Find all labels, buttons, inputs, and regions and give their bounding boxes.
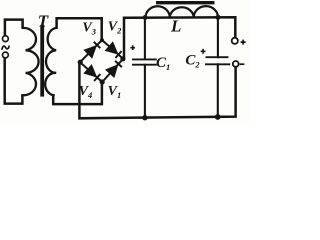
- svg-text:L: L: [170, 17, 181, 36]
- inductor L coil: [145, 6, 218, 17]
- output terminal + (top): [232, 38, 238, 44]
- node: bridge top junction dot: [100, 38, 104, 42]
- wire: bridge right node (DC+) up to top rail, rail to top terminal: [124, 17, 235, 59]
- node: bridge bottom junction dot: [100, 79, 105, 84]
- transformer T secondary winding: [45, 28, 56, 95]
- node: bridge right junction dot: [120, 56, 125, 61]
- plus sign near C2: [201, 49, 206, 54]
- svg-text:C2: C2: [185, 53, 200, 70]
- svg-text:C1: C1: [156, 55, 170, 72]
- plus sign near C1: [130, 45, 135, 50]
- svg-text:V3: V3: [82, 20, 96, 36]
- diode V2 (top node to right node): [106, 43, 121, 58]
- wire: AC source top lead to primary top: [5, 20, 23, 36]
- transformer T primary winding: [23, 28, 39, 95]
- node: bottom rail / C1 junction dot: [142, 115, 147, 120]
- wire: secondary top to bridge top node: [57, 18, 102, 39]
- wire: AC source bottom lead to primary bottom: [5, 58, 23, 104]
- capacitor C1 top lead: [144, 18, 146, 59]
- capacitor C2 bottom lead: [217, 64, 219, 117]
- node: top rail / L / C2 junction dot: [216, 15, 221, 20]
- minus sign at bottom output terminal: [240, 63, 245, 65]
- AC terminal bottom: [3, 52, 9, 58]
- node: bottom rail / C2 junction dot: [215, 114, 221, 120]
- svg-text:T: T: [38, 11, 49, 30]
- svg-text:V2: V2: [108, 20, 122, 36]
- AC tilde: [2, 46, 10, 50]
- wire: secondary bottom to bridge bottom node: [53, 83, 102, 105]
- diode V4 (left node to bottom node): [85, 66, 100, 81]
- plus sign at top output terminal: [241, 40, 246, 45]
- AC terminal top: [3, 36, 9, 42]
- inductor core bar: [156, 1, 215, 4]
- capacitor C2 plates: [206, 57, 229, 64]
- svg-text:V1: V1: [108, 84, 122, 100]
- output terminal - (bottom): [233, 61, 239, 67]
- node A: bridge left junction dot: [78, 60, 83, 65]
- capacitor C1 bottom lead: [144, 65, 146, 118]
- wire: bridge left node (DC-) down to bottom rail, rail to bottom terminal: [79, 62, 235, 118]
- diode V1 (bottom node to right node): [107, 61, 122, 76]
- transformer core: [40, 25, 44, 97]
- capacitor C1 plates: [133, 59, 156, 64]
- node: top rail / C1 / L junction dot: [143, 15, 148, 20]
- bridge diamond edges: [80, 40, 123, 82]
- svg-text:V4: V4: [79, 84, 93, 100]
- diode V3 (left node to top node): [85, 42, 100, 57]
- capacitor C2 top lead: [217, 17, 219, 57]
